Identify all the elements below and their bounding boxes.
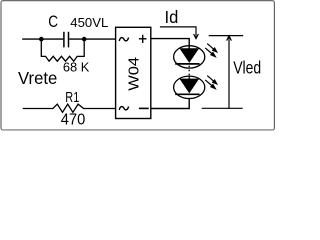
svg-text:W04: W04	[126, 57, 143, 91]
svg-text:R1: R1	[65, 89, 79, 106]
svg-text:Id: Id	[165, 7, 179, 27]
svg-text:C: C	[48, 12, 58, 31]
svg-text:Vrete: Vrete	[18, 68, 57, 88]
svg-text:68 K: 68 K	[63, 60, 90, 75]
svg-text:470: 470	[61, 112, 86, 129]
svg-text:Vled: Vled	[233, 58, 261, 78]
svg-text:450VL: 450VL	[70, 16, 108, 30]
